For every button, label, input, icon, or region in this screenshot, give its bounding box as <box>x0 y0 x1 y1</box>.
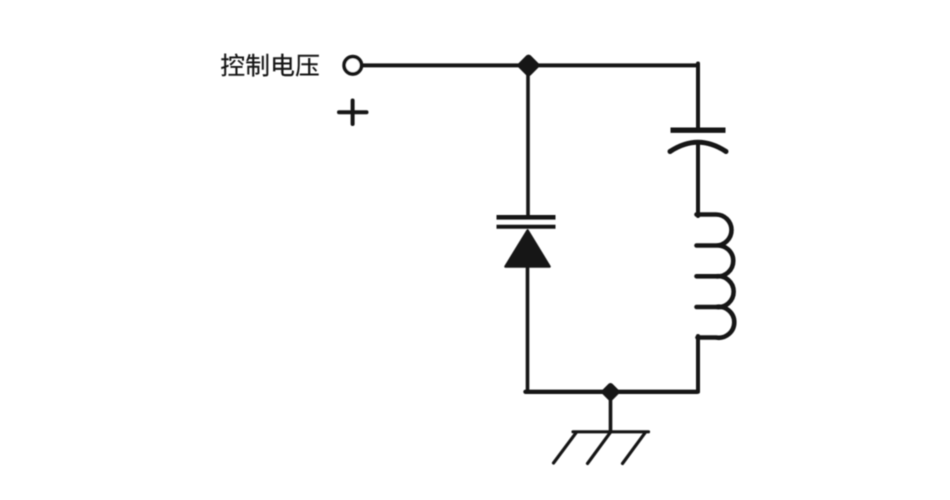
wire: left branch vertical from varactor to bottom wire <box>526 265 530 392</box>
wire: ground stem <box>609 392 613 431</box>
ground: horizontal bar <box>573 430 649 433</box>
plus sign polarity mark <box>339 101 367 125</box>
label char 制 <box>246 54 268 77</box>
input terminal (open circle) <box>344 57 361 74</box>
varactor diode D1: triangle anode pointing up <box>506 231 550 267</box>
wire: top horizontal from terminal to right corner <box>361 63 698 67</box>
capacitor C1: top plate <box>671 127 726 132</box>
wire: right branch vertical from corner to capacitor <box>696 64 700 131</box>
wire: right branch vertical from inductor to bottom corner <box>696 336 700 392</box>
junction node at bottom wire <box>605 386 617 398</box>
wire: bottom horizontal <box>526 390 698 394</box>
label char 电 <box>273 54 294 77</box>
junction node at top wire <box>521 58 536 73</box>
inductor L1: four loops with stubs <box>697 215 735 338</box>
label char 控 <box>221 54 244 77</box>
ground: left prong <box>554 432 577 463</box>
capacitor C1: curved bottom plate <box>670 142 726 151</box>
ground: right prong <box>623 432 646 463</box>
label char 压 <box>296 55 319 77</box>
wire: left branch vertical from junction to varactor <box>526 65 530 216</box>
ground: middle prong <box>588 432 611 463</box>
varactor diode D1: lower plate <box>497 225 556 229</box>
wire: right branch vertical from capacitor to inductor <box>696 144 700 216</box>
varactor diode D1: upper plate <box>497 215 556 220</box>
